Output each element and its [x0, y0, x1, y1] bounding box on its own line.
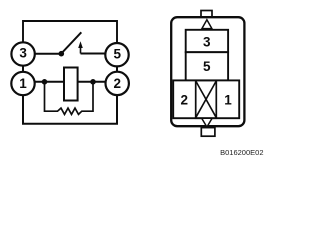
svg-text:5: 5: [113, 46, 121, 61]
switch S arm: [61, 32, 81, 53]
terminal box 5: [186, 52, 228, 80]
node B junction dot: [90, 79, 96, 85]
switch S arrowhead: [78, 41, 83, 48]
relay coil (rectangle): [64, 68, 78, 101]
wire link pin3-pin1: [22, 66, 24, 72]
key X diagonal 2: [196, 81, 217, 118]
connector bottom tab: [201, 128, 215, 137]
svg-text:1: 1: [224, 92, 232, 107]
top index triangle: [202, 20, 212, 29]
svg-text:3: 3: [203, 35, 211, 50]
bottom index triangle: [202, 118, 212, 127]
key X diagonal 1: [196, 81, 217, 118]
key X box: [196, 80, 217, 118]
terminal bottom row box: [173, 80, 239, 118]
svg-text:2: 2: [180, 92, 188, 107]
switch S arrow stem: [80, 46, 82, 54]
svg-text:1: 1: [19, 76, 27, 91]
wire bottom rail (pin 1 to pin 2): [23, 95, 117, 124]
connector housing: [171, 17, 244, 126]
svg-text:3: 3: [19, 46, 27, 61]
terminal pin 1 (circle): [11, 72, 34, 95]
terminal pin 2 (circle): [106, 72, 129, 95]
terminal pin 5 (circle): [105, 43, 128, 66]
wire top rail (pin 3 to pin 5): [23, 21, 117, 43]
resistor R parallel path with zigzag: [45, 82, 94, 115]
svg-text:5: 5: [203, 59, 211, 74]
wire link pin5-pin2: [116, 67, 118, 72]
wire pin1 to pin2 through coil: [34, 81, 106, 83]
terminal pin 3 (circle): [11, 42, 34, 65]
switch S contact dot: [59, 51, 65, 57]
svg-text:B016200E02: B016200E02: [220, 148, 263, 157]
terminal box 3: [186, 30, 228, 52]
wire pin3 to switch contact: [34, 53, 61, 55]
node A junction dot: [42, 79, 48, 85]
connector top tab: [201, 11, 212, 18]
svg-text:2: 2: [113, 76, 121, 91]
wire switch arrow to pin5: [81, 53, 107, 55]
